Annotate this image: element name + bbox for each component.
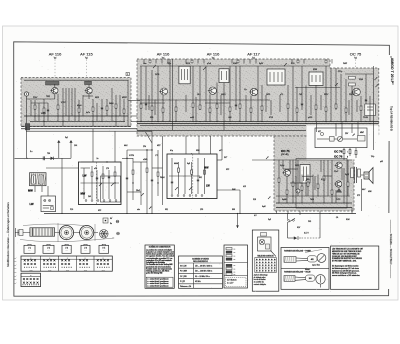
block D junction dots — [286, 202, 287, 203]
alignment screw 1 — [317, 254, 326, 263]
transistor T6 OC75 driver — [353, 88, 361, 96]
volume pot P1 — [337, 136, 342, 141]
tuner box right partition — [192, 154, 194, 199]
discriminator can U4 — [309, 72, 323, 85]
svg-text:AF 117: AF 117 — [247, 52, 260, 57]
svg-text:18.8: 18.8 — [197, 94, 201, 96]
svg-text:VV7M: VV7M — [129, 155, 134, 157]
wire right of tuner box — [217, 159, 222, 161]
svg-text:200: 200 — [309, 278, 312, 280]
svg-text:2 x 1,5 V: 2 x 1,5 V — [227, 283, 234, 285]
svg-text:U 5: U 5 — [102, 248, 105, 250]
svg-text:750: 750 — [47, 153, 50, 155]
svg-text:WELLENBEREICHE: WELLENBEREICHE — [193, 261, 208, 263]
svg-text:k27: k27 — [318, 131, 321, 133]
transistor T3 AF116 — [161, 88, 168, 95]
svg-text:(OC 45): (OC 45) — [281, 154, 289, 156]
dial small screws — [116, 220, 119, 223]
jack box — [41, 196, 56, 212]
svg-text:k01: k01 — [199, 177, 202, 179]
svg-text:FI | ZF: FI | ZF — [180, 281, 185, 283]
wires from block D to rail — [275, 211, 277, 214]
svg-text:k15: k15 — [243, 186, 246, 188]
transistor Q9 OC76 lower — [335, 181, 341, 187]
switch table frame — [21, 256, 112, 271]
legend column icons — [226, 248, 232, 250]
svg-text:n2M1: n2M1 — [143, 159, 148, 161]
block B top rail — [140, 65, 330, 67]
svg-text:OC | KW: OC | KW — [180, 276, 187, 278]
svg-text:nn05: nn05 — [190, 117, 194, 119]
dial pulley 1 — [59, 226, 73, 240]
svg-text:VM95: VM95 — [41, 113, 46, 115]
audio arrow feedback — [268, 196, 271, 199]
svg-text:1F9: 1F9 — [200, 209, 203, 211]
svg-text:U 3: U 3 — [65, 248, 68, 250]
dial cord drive sketch — [15, 232, 98, 234]
speaker LS — [364, 172, 369, 179]
svg-text:7FVM: 7FVM — [363, 117, 368, 119]
dial cord path — [20, 238, 114, 242]
scan noise speckles — [16, 48, 379, 292]
svg-text:FMp5: FMp5 — [160, 177, 165, 179]
oscillator diagonal wire — [146, 132, 153, 143]
interstage coupling wires — [129, 100, 141, 102]
block A label box 1 — [46, 81, 60, 85]
series capacitor — [42, 156, 44, 160]
svg-text:pk5: pk5 — [380, 161, 383, 163]
transistor T5 AF117 — [250, 88, 257, 95]
svg-text:Mk1n: Mk1n — [306, 179, 310, 181]
svg-text:951: 951 — [165, 209, 168, 211]
band switch arrow — [149, 207, 151, 209]
svg-text:————— SCHEMA — SCHALTBILD ——: ————— SCHEMA — SCHALTBILD ————— — [389, 220, 393, 279]
extra junction dots — [126, 158, 127, 159]
on-off switch — [288, 219, 290, 221]
antenna coil MW — [32, 175, 36, 184]
tuner box right — [167, 154, 217, 199]
svg-text:OC 76: OC 76 — [334, 154, 343, 158]
block D horizontal links — [283, 168, 298, 170]
driver transformer — [300, 165, 310, 184]
svg-text:9pkM: 9pkM — [282, 199, 287, 201]
audio input wire — [252, 159, 276, 161]
svg-text:F05: F05 — [308, 221, 311, 223]
svg-text:OC 75: OC 75 — [350, 52, 362, 57]
svg-text:GO | LW: GO | LW — [180, 266, 187, 268]
svg-text:5.19: 5.19 — [291, 63, 295, 65]
svg-text:.F7.: .F7. — [155, 155, 159, 157]
outer frame — [14, 42, 390, 296]
svg-text:noyau / Kern: noyau / Kern — [312, 265, 320, 267]
legend column box — [224, 245, 248, 288]
text box M1 inner frame — [146, 277, 173, 287]
emitter ground triangle — [336, 188, 342, 193]
speaker wires — [361, 174, 364, 176]
svg-text:5F8.: 5F8. — [150, 117, 154, 119]
svg-text:Mn2: Mn2 — [124, 145, 128, 147]
svg-text:28n2: 28n2 — [136, 190, 140, 192]
svg-text:10F5: 10F5 — [266, 94, 270, 96]
svg-text:messen und können ± 10% abweic: messen und können ± 10% abweichen. — [332, 275, 361, 277]
svg-text:MW: MW — [81, 192, 86, 196]
svg-text:150 — 260 kHz / 2000 m: 150 — 260 kHz / 2000 m — [195, 266, 213, 268]
svg-text:179: 179 — [106, 168, 109, 170]
svg-text:AF 116: AF 116 — [157, 52, 170, 57]
right edge vertical wire — [373, 66, 375, 74]
svg-text:F2MV: F2MV — [349, 94, 355, 96]
block A junction dots — [34, 115, 35, 116]
svg-text:0015: 0015 — [95, 97, 99, 99]
svg-text:518: 518 — [253, 199, 256, 201]
svg-text:9715: 9715 — [269, 117, 273, 119]
rail junction dots — [61, 213, 62, 214]
transistor T2 AF115 — [86, 87, 92, 93]
block B trimmers — [153, 65, 156, 68]
svg-text:9852: 9852 — [295, 165, 299, 167]
transistor Q7 OC71 — [284, 169, 291, 176]
feedback loop wire box — [296, 159, 347, 209]
svg-text:LW: LW — [206, 185, 210, 188]
dial pulley 2 — [80, 226, 94, 240]
svg-text:AF 116: AF 116 — [49, 52, 62, 57]
svg-text:5Mp0: 5Mp0 — [109, 103, 114, 105]
wave band table — [179, 256, 223, 288]
svg-text:0.12: 0.12 — [321, 179, 325, 181]
IF can U1 — [179, 66, 190, 84]
block D extra stubs — [289, 160, 291, 172]
svg-text:LW: LW — [83, 174, 87, 178]
alignment tool 2 — [284, 276, 295, 282]
block D electrolytic — [296, 189, 300, 193]
svg-text:U 1: U 1 — [28, 248, 31, 250]
ferrite rod antenna — [30, 173, 47, 186]
svg-text:91M7: 91M7 — [233, 63, 238, 65]
tuner box left inner coil box — [101, 176, 121, 202]
white box lower right — [365, 104, 376, 116]
antenna arrow 2 — [70, 141, 72, 150]
svg-text:k5M: k5M — [368, 191, 372, 193]
svg-text:2k0: 2k0 — [88, 196, 91, 198]
volume box parts — [330, 137, 335, 142]
label leader dashes — [54, 60, 56, 86]
output transformer core — [354, 167, 356, 183]
svg-text:510 — 1620 kHz / 588 m: 510 — 1620 kHz / 588 m — [195, 271, 213, 273]
rails below block A — [21, 128, 137, 130]
shaded block B (IF chain middle) — [137, 59, 379, 136]
svg-text:Modifications réservées — Ände: Modifications réservées — Änderungen vor… — [6, 202, 10, 267]
svg-text:n71.: n71. — [280, 94, 284, 96]
block B mid rails — [137, 99, 270, 101]
svg-text:U 4: U 4 — [84, 248, 87, 250]
tuner box left — [79, 162, 122, 205]
text box schema du changeur — [145, 245, 174, 288]
battery circuit 4.5V — [287, 222, 289, 238]
legend box 5 — [99, 245, 109, 253]
antenna input node — [24, 92, 28, 96]
legend box 4 — [81, 245, 90, 253]
svg-text:p7n0: p7n0 — [207, 63, 211, 65]
svg-text:AF 116: AF 116 — [207, 52, 220, 57]
volume control box — [315, 128, 367, 148]
svg-text:OC 71: OC 71 — [281, 149, 290, 153]
alignment tool 1 — [284, 257, 296, 263]
hanging resistors below volume box — [343, 148, 345, 160]
block A top rail — [24, 79, 129, 81]
svg-text:U 2: U 2 — [47, 248, 50, 250]
svg-text:VkM1: VkM1 — [221, 94, 226, 96]
block A link wires — [26, 96, 28, 127]
svg-text:81M: 81M — [346, 219, 350, 221]
alignment instruction box — [281, 248, 329, 290]
oscillator links — [133, 161, 147, 163]
block D top rail — [276, 159, 352, 161]
svg-text:95M: 95M — [196, 150, 200, 152]
block B vertical wires — [140, 66, 142, 122]
svg-text:OC 76: OC 76 — [334, 149, 343, 153]
svg-text:5V7: 5V7 — [224, 157, 227, 159]
dial gear — [100, 230, 109, 239]
dial left bracket — [15, 228, 17, 237]
svg-text:kp7n: kp7n — [86, 112, 90, 114]
transistor T1 AF116 — [52, 87, 58, 93]
shaded block D (AF output stage) — [274, 136, 354, 211]
tuner box left partition — [96, 162, 98, 205]
svg-text:5p5: 5p5 — [268, 219, 271, 221]
svg-text:Mn7: Mn7 — [362, 189, 366, 191]
legend box 3 — [62, 245, 71, 253]
svg-text:PO | MW: PO | MW — [180, 271, 187, 273]
svg-text:MM7: MM7 — [360, 132, 364, 134]
IF can U3 — [267, 69, 285, 85]
block D vertical wires — [278, 160, 280, 203]
svg-text:LW: LW — [30, 202, 34, 206]
svg-text:1Vk: 1Vk — [74, 145, 77, 147]
pickup wire to legend area — [237, 214, 239, 229]
svg-text:7552: 7552 — [46, 96, 50, 98]
svg-text:9p19: 9p19 — [345, 174, 349, 176]
svg-text:0pM: 0pM — [262, 206, 266, 208]
svg-text:.0n8: .0n8 — [228, 117, 232, 119]
output transformer primary — [351, 168, 354, 178]
input rail — [15, 157, 59, 159]
svg-text:MW: MW — [28, 189, 33, 193]
legend box 2 — [43, 245, 54, 253]
svg-text:M1p9: M1p9 — [77, 105, 82, 107]
svg-text:pV85: pV85 — [308, 117, 312, 119]
module sketch — [258, 237, 272, 251]
chassis rail — [44, 213, 356, 215]
white notch around volume controls — [307, 126, 379, 160]
block B bottom rails — [137, 121, 379, 123]
alignment screw 2 — [316, 275, 325, 284]
svg-text:.Fp.: .Fp. — [244, 89, 248, 91]
wire from block A down — [26, 127, 28, 159]
dial support lines — [57, 223, 59, 242]
oscillator wires — [126, 150, 128, 214]
input area wires — [47, 186, 49, 196]
audio arrow in — [266, 156, 269, 159]
svg-text:nkn: nkn — [137, 209, 140, 211]
svg-text:F10: F10 — [70, 209, 73, 211]
svg-text:899: 899 — [232, 209, 235, 211]
svg-text:2Vp: 2Vp — [371, 156, 374, 158]
svg-text:M27: M27 — [157, 145, 161, 147]
svg-text:GAMMES D'ONDES: GAMMES D'ONDES — [192, 257, 210, 260]
svg-text:.1n: .1n — [96, 158, 99, 160]
output transformer secondary — [358, 169, 361, 177]
block B junction dots — [140, 121, 141, 122]
svg-text:8288: 8288 — [313, 69, 317, 71]
block A bottom rails — [24, 115, 129, 117]
svg-text:Vp9p: Vp9p — [280, 165, 284, 167]
block A vertical wires and parts — [30, 100, 32, 116]
antenna coil LW — [39, 175, 43, 184]
svg-text:5p1: 5p1 — [65, 137, 68, 139]
connector blob below block A — [25, 124, 30, 131]
block B extra stubs — [148, 95, 150, 110]
tuner box right parts — [171, 158, 173, 194]
frame break for right margin titles — [387, 55, 391, 141]
note text box right — [331, 246, 379, 289]
tiny ref box top right of block A — [126, 73, 129, 76]
transistor T4 AF116 — [209, 87, 216, 94]
svg-text:7M.0: 7M.0 — [310, 199, 314, 201]
svg-text:52k9: 52k9 — [359, 79, 363, 81]
svg-text:M.p: M.p — [170, 150, 173, 152]
block A caps — [47, 109, 49, 111]
svg-text:„AMIGO T 20 LP“: „AMIGO T 20 LP“ — [390, 56, 394, 85]
svg-text:2V98: 2V98 — [155, 74, 159, 76]
svg-text:8n: 8n — [110, 223, 112, 225]
svg-text:8119: 8119 — [186, 63, 190, 65]
svg-text:2Fk: 2Fk — [143, 146, 146, 148]
small cap box 2 — [349, 83, 356, 86]
svg-text:Typ 14 RB 696 /00 B: Typ 14 RB 696 /00 B — [390, 106, 394, 131]
block B top hanging parts — [143, 59, 145, 64]
svg-text:.0nn: .0nn — [143, 63, 147, 65]
antenna arrow 1 — [58, 141, 60, 150]
wire drops into volume box — [316, 122, 318, 132]
block B caps — [145, 103, 147, 105]
block D bottom rails — [276, 195, 350, 197]
module box — [252, 230, 278, 291]
svg-text:AF 115: AF 115 — [80, 52, 93, 57]
svg-text:4,5 V: 4,5 V — [304, 232, 309, 234]
wires into tuner box left — [92, 129, 94, 162]
tuner box left parts — [91, 166, 93, 199]
lower small table — [21, 273, 41, 286]
svg-text:MnM: MnM — [174, 163, 178, 165]
small cap box 1 — [349, 76, 356, 79]
svg-text:725n: 725n — [167, 63, 171, 65]
svg-text:452 kHz: 452 kHz — [195, 281, 201, 283]
svg-text:FF1p: FF1p — [338, 71, 342, 73]
svg-text:8kM: 8kM — [232, 189, 236, 191]
svg-text:465: 465 — [311, 259, 314, 261]
diode D1 — [51, 157, 54, 160]
transistor Q8 OC76 upper — [336, 162, 342, 168]
dial tuning drum — [30, 228, 55, 236]
dial pointer bracket — [103, 218, 108, 223]
wires into tuner box right — [185, 136, 187, 154]
block B right top rail — [345, 73, 374, 75]
block A label box 2 — [85, 81, 92, 84]
legend box 1 — [24, 245, 35, 253]
switch table x marks — [24, 259, 26, 261]
svg-text:6,0 — 18 MHz / 50 m: 6,0 — 18 MHz / 50 m — [195, 276, 210, 278]
IF can U2 — [219, 69, 229, 83]
shaded block A (RF/IF left) — [21, 78, 131, 127]
